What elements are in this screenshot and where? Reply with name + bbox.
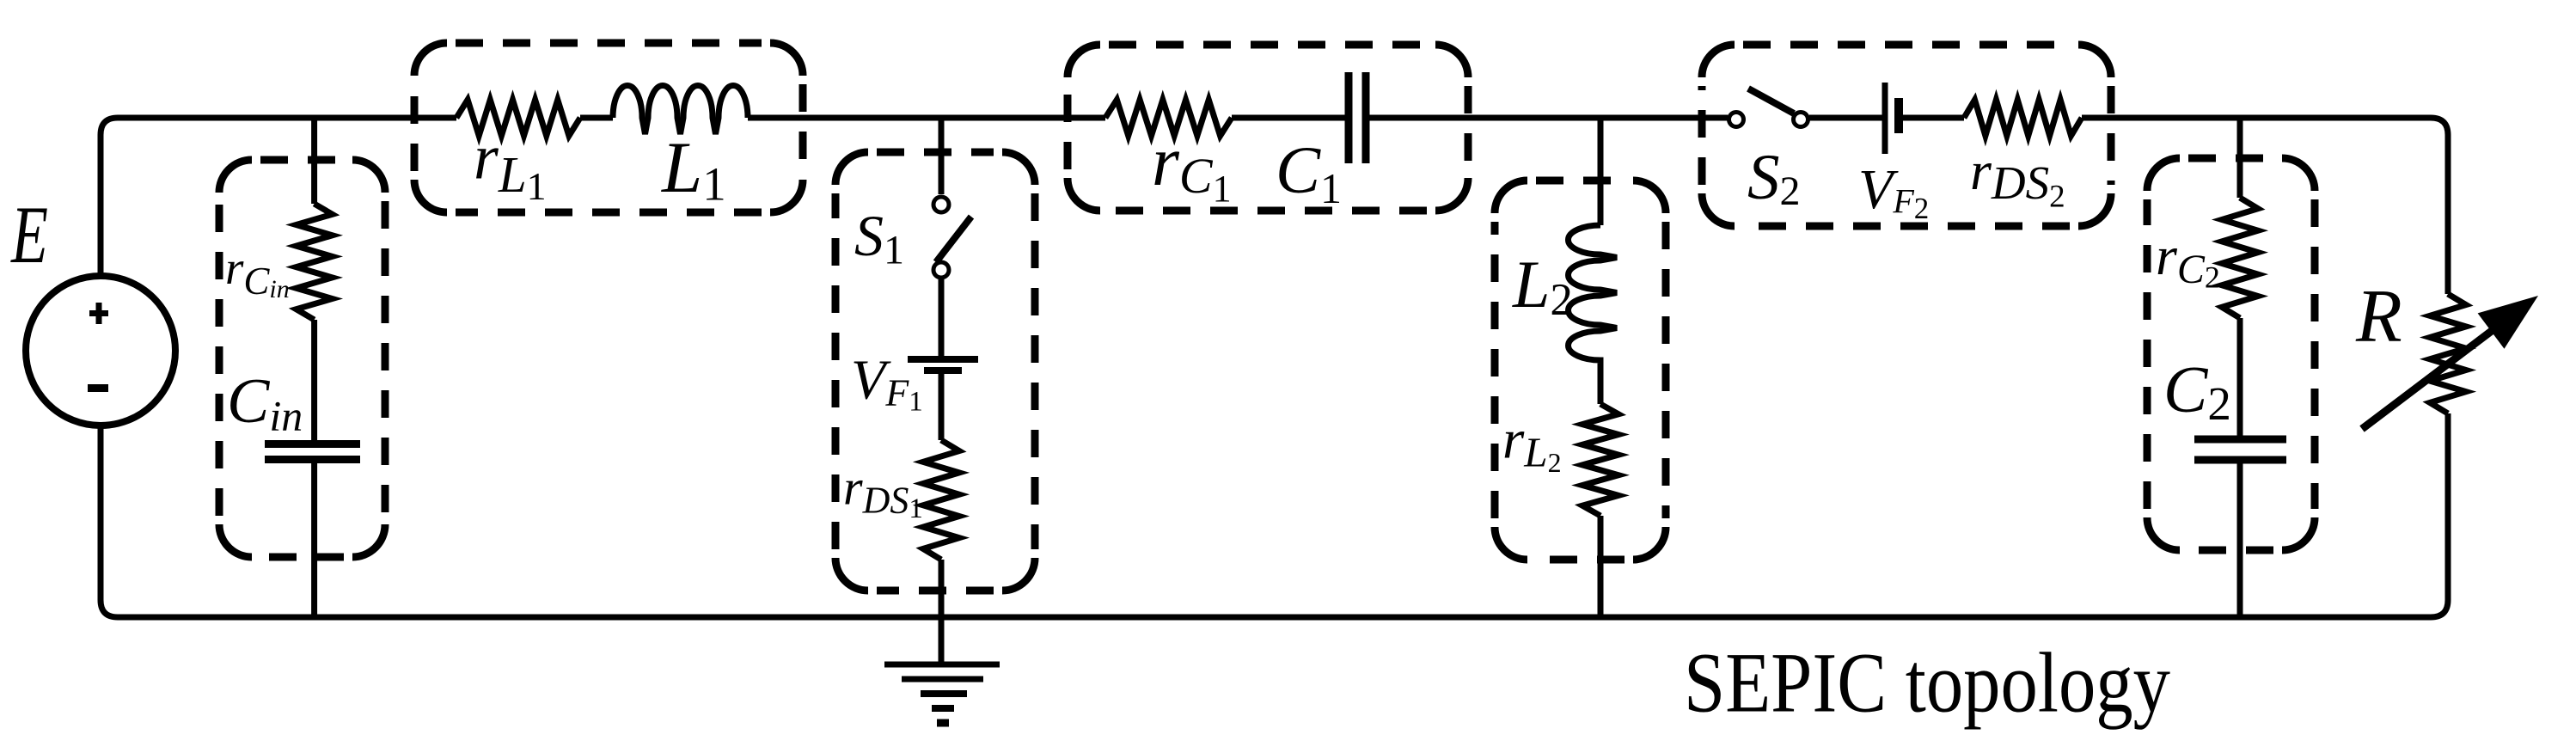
svg-text:rC2: rC2 [2156,225,2220,294]
svg-text:L2: L2 [1512,247,1573,325]
svg-text:rL1: rL1 [474,123,547,209]
svg-text:rDS1: rDS1 [843,460,923,525]
svg-text:VF2: VF2 [1858,158,1929,225]
svg-text:R: R [2355,275,2402,358]
svg-text:SEPIC topology: SEPIC topology [1684,635,2170,731]
svg-text:C2: C2 [2163,352,2231,430]
svg-text:S1: S1 [854,203,904,273]
svg-text:Cin: Cin [227,366,303,440]
svg-text:rCin: rCin [225,242,290,303]
svg-text:E: E [10,191,48,281]
svg-text:C1: C1 [1276,132,1342,212]
svg-text:rL2: rL2 [1502,409,1562,478]
svg-text:rDS2: rDS2 [1970,140,2065,215]
svg-text:S2: S2 [1747,142,1801,214]
svg-text:L1: L1 [661,127,726,211]
